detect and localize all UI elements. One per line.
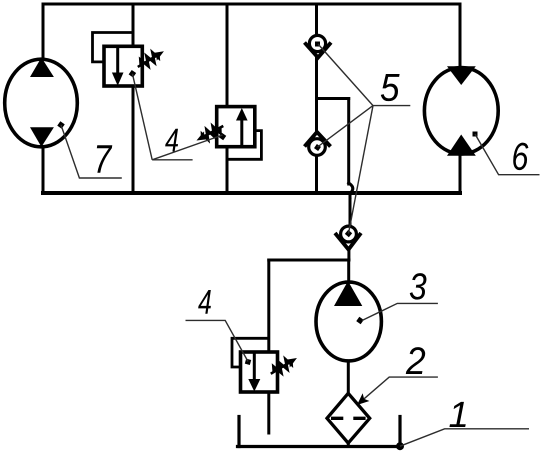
label 6 bbox=[513, 143, 528, 171]
wire motor 6 top bbox=[459, 4, 462, 66]
label 4 top bbox=[165, 129, 178, 152]
leader valve U1 to label 4 bbox=[132, 74, 152, 160]
check valve CV1 bbox=[305, 35, 332, 57]
marker on check valve CV1 bbox=[315, 42, 320, 47]
relief valve U2 internal arrow bbox=[236, 108, 248, 147]
marker on motor 7 bbox=[57, 121, 65, 129]
wire between check valves bbox=[315, 57, 318, 132]
marker on motor 6 bbox=[473, 132, 478, 137]
wire check valve column upper bbox=[315, 4, 318, 34]
wire relief valve 1 upper bbox=[132, 4, 135, 47]
marker on relief valve U3 bbox=[245, 359, 251, 365]
wire jog crossing bus bbox=[349, 183, 353, 198]
wire branch vertical down bbox=[347, 99, 350, 185]
leader motor 6 to label 6 bbox=[475, 134, 540, 175]
leader label 2 to filter bbox=[359, 377, 438, 403]
marker on relief valve U1 bbox=[129, 70, 137, 78]
check valve CV3 bbox=[335, 226, 361, 249]
junction dot on tank corner bbox=[396, 442, 404, 450]
wire relief valve 1 lower bbox=[132, 86, 135, 193]
wire check valve 3 to branch node bbox=[347, 250, 350, 261]
relief valve U1 internal arrow bbox=[112, 46, 124, 86]
wire pump to filter bbox=[347, 363, 350, 394]
wire branch horizontal between check valves bbox=[317, 97, 349, 100]
leader lines bbox=[61, 44, 540, 446]
wire top bus bbox=[43, 3, 460, 6]
wire jog to check valve 3 bbox=[349, 196, 352, 225]
wire relief valve 3 to tank bbox=[267, 392, 270, 433]
relief valve U1 pilot line bbox=[93, 33, 134, 62]
wire filter to tank bottom bbox=[347, 443, 350, 447]
leader check valve CV2 to label 5 bbox=[318, 106, 374, 147]
leader pump to label 3 bbox=[362, 303, 438, 320]
underline label 5 bbox=[373, 105, 410, 107]
check valve CV2 bbox=[305, 132, 331, 155]
wire relief valve 2 upper bbox=[226, 4, 229, 107]
marker on check valve CV2 bbox=[314, 144, 321, 151]
wire down to pump bbox=[347, 260, 350, 281]
label 4 bottom bbox=[198, 290, 211, 314]
leader check valve CV3 to label 5 bbox=[349, 106, 374, 234]
marker on check valve CV3 bbox=[345, 230, 352, 237]
pump 3 bbox=[316, 281, 381, 361]
label 7 bbox=[97, 145, 112, 173]
marker on pump 3 bbox=[356, 317, 364, 325]
relief valve U3 (bottom) body bbox=[241, 352, 278, 392]
marker on relief valve U2 bbox=[219, 133, 227, 141]
hydraulic motor 6 bbox=[424, 66, 498, 155]
leader motor 7 to label 7 bbox=[61, 125, 122, 178]
arrowhead on filter leader bbox=[354, 393, 370, 409]
wire motor 6 bottom bbox=[459, 155, 462, 193]
label 5 bbox=[381, 74, 400, 101]
leader check valve CV1 to label 5 bbox=[318, 44, 373, 106]
wire relief valve 2 lower bbox=[226, 147, 229, 194]
leader label 1 to tank bbox=[400, 429, 529, 446]
label 2 bbox=[406, 347, 425, 374]
hydraulic motor 7 bbox=[5, 58, 78, 147]
wire motor 7 bottom to bus bbox=[42, 148, 45, 193]
relief valve U1 spring and adjustment arrow bbox=[135, 47, 166, 71]
relief valve U3 internal arrow bbox=[248, 352, 260, 392]
tank 1 bbox=[238, 417, 402, 447]
label 1 bbox=[449, 402, 465, 427]
leader label 4 bottom to valve U3 bbox=[186, 320, 249, 361]
wire below check valve 2 bbox=[315, 158, 318, 194]
relief valve U3 pilot line bbox=[232, 338, 269, 367]
relief valve U1 (top left) body bbox=[104, 46, 142, 86]
label 3 bbox=[410, 273, 427, 300]
wire horizontal branch to relief valve 3 bbox=[269, 259, 349, 262]
relief valve U3 spring and adjustment arrow bbox=[268, 354, 299, 378]
leader valve U2 to label 4 bbox=[152, 135, 222, 160]
relief valve U2 pilot line bbox=[227, 131, 261, 160]
wire bottom bus bbox=[43, 191, 460, 195]
filter 2 bbox=[327, 393, 370, 443]
underline label 4 top bbox=[152, 159, 192, 161]
wire left vertical to motor 7 top bbox=[42, 4, 45, 58]
relief valve U2 (middle) body bbox=[217, 107, 255, 147]
relief valve U2 spring and adjustment arrow bbox=[194, 122, 226, 145]
wire left branch down to relief valve 3 bbox=[267, 260, 270, 352]
